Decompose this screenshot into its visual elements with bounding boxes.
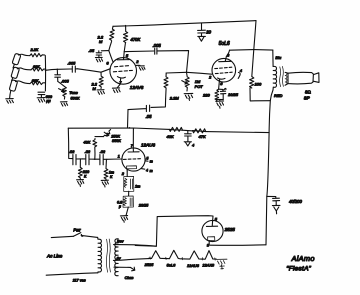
capacitor .05 interstage — [128, 105, 150, 111]
svg-text:.02: .02 — [69, 149, 75, 154]
wire .05 down to plate line — [127, 110, 130, 128]
svg-text:μ: μ — [118, 205, 121, 209]
svg-text:1m: 1m — [109, 170, 114, 174]
wire AC top — [51, 236, 73, 237]
svg-text:12AX6: 12AX6 — [202, 263, 215, 268]
svg-text:4: 4 — [240, 68, 243, 73]
wire plate/screen horizontal y50 — [230, 49, 273, 52]
svg-text:40K: 40K — [167, 134, 174, 139]
heater string 2525 — [149, 251, 168, 259]
svg-text:2.2K: 2.2K — [30, 48, 39, 52]
wire 50L6 cathode — [218, 82, 221, 89]
svg-text:.02: .02 — [100, 149, 106, 154]
svg-text:20/25: 20/25 — [138, 203, 149, 207]
svg-text:40K: 40K — [83, 140, 90, 145]
speaker SP — [285, 72, 288, 85]
ground pin2 — [138, 66, 145, 70]
wire 2525 plate feed — [135, 216, 213, 247]
potentiometer 1M volume — [182, 72, 189, 91]
capacitor .005 tone — [55, 69, 61, 81]
wire plate node — [124, 51, 154, 58]
wire jack2 hook — [17, 68, 31, 70]
svg-text:68K: 68K — [33, 65, 40, 69]
wire filter feed line y130 — [68, 128, 269, 133]
ground .05 stage1 — [95, 57, 102, 62]
svg-text:K: K — [110, 175, 113, 179]
triode 12AV6 V1 — [110, 58, 137, 85]
svg-text:m: m — [150, 169, 153, 173]
node AB junction — [82, 158, 83, 159]
capacitor 4uF filter — [184, 131, 191, 146]
svg-text:10/25: 10/25 — [228, 92, 239, 97]
svg-text:4: 4 — [192, 143, 195, 148]
resistor 40K feedback — [93, 139, 97, 160]
resistor 2.2M plate slant — [109, 26, 115, 50]
ground 1M — [101, 180, 108, 187]
svg-text:12AU6: 12AU6 — [187, 263, 200, 268]
ground cathode V1 — [112, 88, 120, 93]
svg-text:“FiestA”: “FiestA” — [286, 266, 311, 273]
capacitor 10/25 cathode — [219, 88, 226, 99]
wire slant to pin6 — [109, 51, 113, 63]
heater string 50L6 — [168, 250, 185, 259]
wire A-B — [80, 158, 85, 160]
resistor 68K input — [31, 68, 46, 71]
svg-text:6: 6 — [106, 61, 109, 66]
svg-text:AlAmο: AlAmο — [291, 254, 315, 263]
svg-text:68K: 68K — [32, 79, 39, 83]
svg-text:.005: .005 — [153, 43, 162, 48]
wire RC2 to ground — [126, 207, 128, 216]
ground input cap — [37, 98, 45, 103]
resistor 220 cathode — [215, 89, 219, 101]
resistor 68K input lower — [30, 82, 45, 85]
resistor 47K filter — [193, 129, 206, 133]
ground volume pot — [184, 93, 193, 100]
node volume junction — [186, 72, 188, 74]
wire B-C — [95, 158, 100, 160]
switch PWR — [74, 233, 98, 238]
wire secondary tap bottom — [114, 266, 130, 268]
node .05 branch — [108, 50, 109, 51]
wire 2.2M to .05 — [151, 99, 166, 107]
svg-text:850K: 850K — [112, 139, 121, 143]
transformer T2 secondary — [115, 239, 118, 276]
wire pin4 stub — [141, 168, 145, 171]
wire rectifier cathode to rail — [210, 244, 266, 247]
svg-text:5: 5 — [215, 216, 218, 221]
resistor 40K filter — [169, 127, 182, 131]
wire 12AU6 plate up — [132, 128, 134, 148]
svg-text:SP: SP — [304, 96, 310, 101]
ground tone pot — [60, 102, 67, 106]
svg-text:220: 220 — [202, 92, 210, 97]
svg-text:POT: POT — [195, 84, 204, 89]
transformer T1 output primary — [273, 50, 277, 90]
input jack J3 — [9, 80, 17, 92]
pentode 12AU6 V2 — [122, 148, 145, 171]
svg-text:4: 4 — [146, 169, 148, 173]
resistor 2.2K input — [30, 53, 45, 56]
svg-text:Ac Line: Ac Line — [46, 254, 63, 259]
ground 220K — [77, 180, 84, 187]
ground 12AU6 cathode — [120, 216, 127, 223]
svg-text:2: 2 — [121, 171, 125, 176]
svg-text:.005: .005 — [61, 79, 70, 84]
transformer T1 secondary — [285, 72, 287, 85]
transformer T2 power primary — [98, 237, 102, 272]
wire pin4 curl — [238, 72, 240, 78]
potentiometer 250K — [103, 130, 110, 137]
svg-text:2525: 2525 — [144, 262, 154, 267]
svg-text:RED: RED — [274, 93, 283, 98]
svg-text:5oL6: 5oL6 — [167, 262, 176, 267]
svg-text:Pwr: Pwr — [73, 227, 81, 232]
wire C to grid — [107, 158, 122, 160]
svg-text:Tone: Tone — [69, 90, 78, 95]
resistor 2.2M interstage — [164, 73, 168, 99]
svg-text:m: m — [150, 159, 153, 163]
resistor 1M tone shunt — [104, 160, 108, 181]
input jack J2 — [11, 67, 20, 79]
wire 50L6 plate lead — [226, 50, 229, 56]
svg-text:.05: .05 — [89, 48, 95, 53]
wire right HT rail — [266, 90, 273, 245]
wire jack3 hook — [16, 81, 31, 84]
wire junction to 50L6 grid — [187, 72, 212, 74]
svg-text:3: 3 — [227, 53, 230, 58]
svg-text:.05: .05 — [146, 114, 152, 119]
svg-text:μμ: μμ — [45, 99, 51, 103]
potentiometer TONE 500K — [58, 81, 67, 99]
ground jack sleeve — [6, 99, 14, 104]
wire RC1 to RC2 — [128, 191, 130, 196]
wire coupling to volume node — [157, 51, 188, 73]
wire secondary tap heater — [113, 259, 148, 261]
wire secondary tap top — [114, 245, 157, 247]
input jack J1 — [12, 53, 21, 65]
resistor-capacitor 6.8 20/25 cathode — [123, 196, 133, 207]
wire top B+ line — [113, 21, 256, 27]
chassis ground arrow — [130, 267, 134, 271]
svg-text:117 vac: 117 vac — [73, 278, 86, 282]
wire tone network drop — [68, 128, 72, 158]
svg-text:.02: .02 — [85, 149, 91, 154]
svg-text:Blu: Blu — [275, 55, 282, 60]
capacitor .005 input coupling — [70, 66, 78, 72]
wire cathode rc join — [217, 99, 224, 101]
svg-text:220: 220 — [82, 170, 90, 174]
transformer T2 core — [106, 239, 110, 272]
wire input node to grid — [46, 69, 111, 73]
wire pin5 stub — [145, 159, 148, 161]
svg-text:12AV6: 12AV6 — [130, 85, 144, 90]
wire B+ right corner down — [254, 21, 256, 50]
capacitor 680uuF input — [38, 92, 45, 97]
resistor 470K plate load — [124, 25, 128, 51]
svg-text:2: 2 — [208, 74, 212, 79]
svg-text:Bov: Bov — [117, 240, 125, 244]
svg-text:20: 20 — [205, 29, 211, 34]
node input junction — [45, 70, 47, 72]
ground 50L6 cathode — [216, 101, 224, 108]
svg-text:47K: 47K — [199, 134, 206, 139]
wire pin2 stub — [136, 64, 140, 66]
svg-text:100: 100 — [255, 82, 262, 87]
resistor-capacitor 1K cathode — [124, 176, 134, 191]
svg-text:1m: 1m — [135, 184, 140, 188]
heater pin ticks — [149, 257, 216, 260]
node tone junction — [57, 69, 59, 71]
wire cathode down — [126, 171, 128, 176]
svg-text:2: 2 — [135, 59, 139, 64]
ground grid leak — [97, 90, 104, 95]
capacitor .005 coupling stage1 — [155, 48, 157, 54]
capacitor 20uF B+ — [198, 23, 206, 41]
wire AC bottom — [46, 273, 98, 275]
svg-text:K: K — [84, 174, 87, 178]
beam tetrode 50L6 V3 — [212, 58, 236, 82]
svg-text:5oL6: 5oL6 — [219, 41, 230, 47]
transformer T1 core — [280, 66, 284, 86]
capacitor .05 stage1 — [96, 51, 109, 58]
svg-text:5: 5 — [126, 53, 129, 58]
resistor 220K tone shunt — [78, 160, 82, 180]
svg-text:470K: 470K — [131, 37, 141, 42]
svg-text:500K: 500K — [71, 96, 80, 101]
capacitor .02 C — [100, 155, 107, 165]
svg-text:2525: 2525 — [224, 227, 236, 232]
svg-text:M: M — [99, 39, 103, 44]
capacitor 40/200 filter — [267, 196, 280, 213]
node BC junction — [94, 159, 95, 160]
node plate line junction — [129, 127, 131, 129]
wire 40K to pot — [95, 136, 103, 138]
svg-text:1: 1 — [118, 154, 120, 159]
ground heater string — [216, 259, 227, 269]
capacitor .02 B — [86, 155, 95, 165]
heater string 12AU6 — [185, 251, 202, 259]
capacitor .02 A — [73, 155, 80, 165]
wire jack chain — [10, 64, 15, 98]
svg-text:2.2M: 2.2M — [169, 96, 180, 101]
wire cathode pin7 — [117, 84, 120, 88]
svg-text:8Ω: 8Ω — [305, 90, 311, 95]
rectifier 2525 V4 — [202, 220, 223, 241]
svg-text:Chas: Chas — [125, 276, 134, 280]
svg-text:.005: .005 — [68, 61, 77, 66]
resistor 2.2M grid leak — [99, 72, 103, 88]
wire junction left — [166, 71, 186, 74]
wire jack1 hook — [19, 54, 30, 55]
svg-text:12AU6: 12AU6 — [141, 143, 155, 148]
svg-text:40/200: 40/200 — [289, 199, 302, 204]
resistor 100 screen dropper — [250, 50, 271, 101]
heater string 12AX6 — [201, 251, 216, 260]
svg-text:5: 5 — [146, 157, 148, 161]
wire input bus — [44, 56, 46, 92]
